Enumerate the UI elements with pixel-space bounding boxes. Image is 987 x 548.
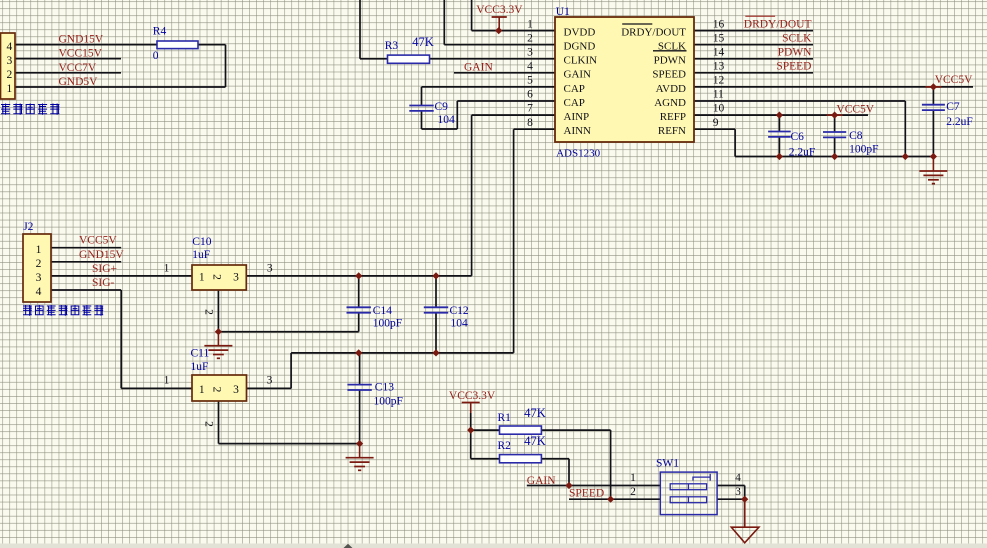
svg-text:9: 9 [713,117,719,129]
svg-text:C8: C8 [849,130,863,142]
svg-text:CAP: CAP [564,83,585,95]
svg-text:GND15V: GND15V [59,34,104,46]
svg-text:5: 5 [527,75,533,87]
svg-text:AVDD: AVDD [656,83,686,95]
svg-text:VCC7V: VCC7V [59,62,97,74]
svg-text:1uF: 1uF [192,249,210,261]
svg-text:J2: J2 [23,221,33,233]
svg-text:1uF: 1uF [191,361,209,373]
svg-text:100pF: 100pF [849,143,878,155]
svg-text:0: 0 [153,50,159,62]
svg-text:R4: R4 [153,25,167,37]
svg-text:13: 13 [713,61,725,73]
svg-text:2: 2 [203,309,215,315]
svg-text:VCC3.3V: VCC3.3V [449,390,496,402]
svg-text:SCLK: SCLK [782,33,812,45]
svg-text:14: 14 [713,46,725,58]
svg-text:100pF: 100pF [374,395,403,407]
svg-text:1: 1 [199,271,205,283]
svg-text:VCC5V: VCC5V [79,235,117,247]
svg-text:SPEED: SPEED [569,487,604,499]
svg-text:VCC5V: VCC5V [935,74,973,86]
svg-text:C9: C9 [435,101,449,113]
svg-text:REFN: REFN [658,125,686,137]
svg-text:2.2uF: 2.2uF [946,116,973,128]
svg-text:3: 3 [267,262,273,274]
svg-text:10: 10 [713,103,725,115]
svg-text:11: 11 [713,89,724,101]
svg-text:15: 15 [713,32,725,44]
svg-text:47K: 47K [524,406,546,420]
svg-text:3: 3 [735,486,741,498]
svg-text:GND5V: GND5V [59,76,99,88]
svg-text:1: 1 [630,472,636,484]
svg-text:GAIN: GAIN [464,62,493,74]
svg-text:DGND: DGND [564,41,596,53]
svg-text:3: 3 [233,271,239,283]
svg-text:4: 4 [36,286,42,298]
svg-text:104: 104 [451,317,469,329]
svg-text:2: 2 [211,274,223,280]
svg-text:7: 7 [527,103,533,115]
svg-text:ADS1230: ADS1230 [556,148,601,160]
svg-text:C11: C11 [191,348,210,360]
svg-text:2: 2 [211,387,223,393]
svg-text:1: 1 [164,375,170,387]
svg-text:1: 1 [7,83,13,95]
svg-text:C10: C10 [192,236,211,248]
svg-text:C7: C7 [946,101,960,113]
svg-text:AINP: AINP [564,111,590,123]
svg-text:VCC15V: VCC15V [59,48,103,60]
svg-text:12: 12 [713,75,725,87]
svg-text:DVDD: DVDD [564,27,596,39]
svg-text:4: 4 [7,41,13,53]
svg-text:CAP: CAP [564,97,585,109]
svg-text:C14: C14 [373,305,392,317]
svg-text:8: 8 [527,117,533,129]
svg-text:C12: C12 [450,305,469,317]
svg-text:3: 3 [233,384,239,396]
svg-text:3: 3 [267,375,273,387]
svg-text:VCC3.3V: VCC3.3V [476,4,523,16]
svg-text:GAIN: GAIN [527,475,556,487]
svg-text:R2: R2 [498,440,512,452]
svg-text:100pF: 100pF [373,317,402,329]
svg-text:2: 2 [7,69,13,81]
svg-text:2: 2 [630,486,636,498]
svg-text:AGND: AGND [654,97,686,109]
svg-text:1: 1 [527,18,533,30]
svg-text:GAIN: GAIN [564,69,592,81]
svg-text:SPEED: SPEED [776,61,811,73]
svg-text:2.2uF: 2.2uF [789,146,816,158]
svg-text:SIG+: SIG+ [92,263,117,275]
svg-text:104: 104 [438,114,456,126]
svg-text:R3: R3 [385,40,399,52]
svg-text:PDWN: PDWN [654,55,686,67]
svg-text:3: 3 [36,272,42,284]
svg-text:47K: 47K [412,35,434,49]
svg-text:47K: 47K [524,434,546,448]
svg-text:GND15V: GND15V [79,249,124,261]
svg-text:4: 4 [735,472,741,484]
svg-text:VCC5V: VCC5V [836,103,874,115]
svg-text:U1: U1 [556,6,570,18]
svg-text:C13: C13 [375,381,394,393]
svg-text:SPEED: SPEED [652,69,686,81]
svg-text:1: 1 [36,244,42,256]
svg-text:6: 6 [527,89,533,101]
svg-text:SW1: SW1 [656,458,679,470]
svg-text:DRDY/DOUT: DRDY/DOUT [621,27,686,39]
svg-text:2: 2 [203,421,215,427]
svg-text:R1: R1 [498,412,512,424]
svg-text:3: 3 [527,46,533,58]
svg-text:C6: C6 [791,131,805,143]
svg-text:2: 2 [36,258,42,270]
svg-text:2: 2 [527,32,533,44]
svg-text:DRDY/DOUT: DRDY/DOUT [744,19,812,31]
svg-text:AINN: AINN [564,125,592,137]
svg-text:16: 16 [713,18,725,30]
svg-text:PDWN: PDWN [778,46,813,58]
svg-text:1: 1 [199,384,205,396]
svg-text:CLKIN: CLKIN [564,55,598,67]
svg-text:4: 4 [527,61,533,73]
svg-text:REFP: REFP [660,111,686,123]
svg-text:3: 3 [7,55,13,67]
svg-text:1: 1 [164,262,170,274]
svg-text:SIG-: SIG- [92,277,115,289]
